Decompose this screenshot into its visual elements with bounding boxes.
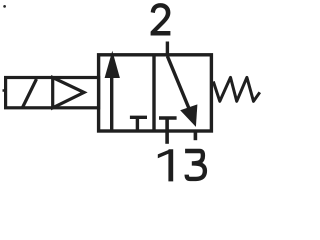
solenoid actuator box (left) xyxy=(6,78,99,108)
valve body outline xyxy=(99,55,212,131)
right-position flow arrow head (down-right) xyxy=(180,104,197,127)
right-position flow path 2->3 diagonal shaft xyxy=(167,56,189,108)
port label 3 xyxy=(185,151,205,179)
blocked port T (left square) bar xyxy=(130,116,147,119)
blocked port T (right square) bar xyxy=(159,116,177,119)
port label 1 xyxy=(158,149,173,181)
port label 2 xyxy=(151,3,171,35)
left-position flow arrow head xyxy=(105,51,120,78)
pilot triangle xyxy=(53,78,84,108)
port 1 line: T stem through body to bottom stub xyxy=(165,118,169,144)
stray dot (top-left) xyxy=(3,5,6,8)
port 2 line (top) xyxy=(166,42,169,57)
divider between positions xyxy=(152,54,155,133)
left-position flow arrow (up), shaft xyxy=(110,74,113,131)
solenoid lead nub (left edge) xyxy=(3,89,6,92)
return spring (right) xyxy=(213,77,259,101)
solenoid diagonal stroke xyxy=(23,79,37,108)
blocked port T (left square) stem xyxy=(136,117,139,130)
port 3 stub (bottom) xyxy=(194,130,198,141)
